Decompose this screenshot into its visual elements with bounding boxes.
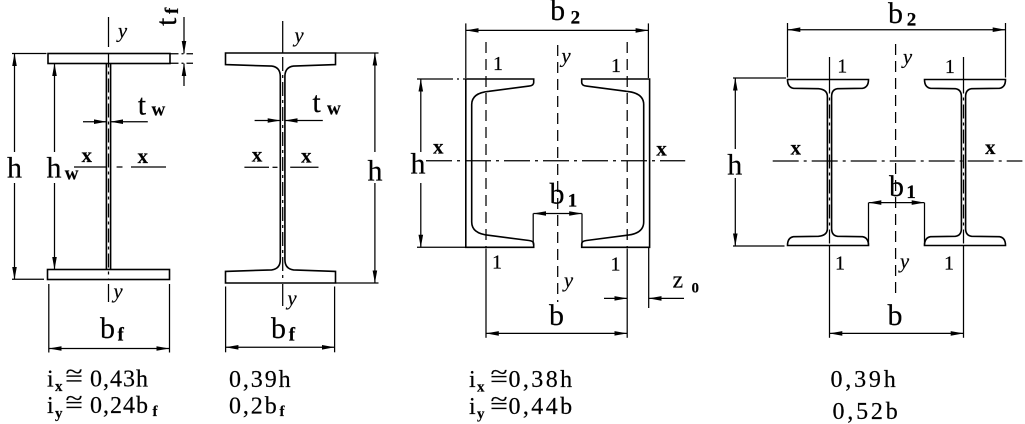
left I-beam outline (figure 4) [788,80,869,246]
svg-text:x: x [301,144,312,168]
bottom flange of beam 1 [48,270,170,280]
label t_w (beam 1) [138,88,166,121]
svg-text:~: ~ [491,387,508,413]
svg-text:~: ~ [66,386,83,412]
svg-text:x: x [985,135,996,159]
svg-text:t: t [138,88,147,121]
svg-text:b: b [100,312,115,345]
svg-text:1: 1 [611,55,621,77]
svg-text:x: x [433,135,444,159]
svg-text:t: t [312,86,321,119]
svg-text:y: y [112,281,124,303]
formula i_x = 0,38h (column 3) [469,360,575,396]
svg-text:0,38h: 0,38h [509,367,575,393]
svg-text:1: 1 [906,182,916,203]
svg-text:h: h [47,152,62,185]
svg-text:y: y [562,270,574,292]
svg-text:0,39h: 0,39h [229,367,293,393]
formula 0,2b_f (column 2) [229,394,286,421]
svg-text:1: 1 [945,56,955,78]
svg-text:y: y [293,25,305,47]
svg-text:b: b [550,178,565,211]
label b_1 (figure 4) [889,170,916,203]
svg-text:2: 2 [571,8,581,29]
svg-text:0,52b: 0,52b [833,399,901,424]
svg-text:0: 0 [692,281,700,297]
dimension b (figure 3) [486,332,627,334]
svg-text:x: x [82,143,93,167]
svg-text:b: b [888,299,903,332]
label t_w (beam 2) [312,86,341,120]
axis 1-1 right (figure 3) [626,42,628,338]
svg-text:1: 1 [568,191,578,212]
svg-text:1: 1 [493,53,503,75]
dimension t_w (beam 1) [83,121,148,123]
svg-text:t: t [150,17,183,26]
svg-text:0,39h: 0,39h [831,367,899,393]
svg-text:~: ~ [66,360,83,386]
top flange of beam 1 [48,54,170,64]
formula i_y = 0,24b_f (column 1) [47,386,159,422]
svg-text:i: i [47,393,54,419]
svg-text:1: 1 [837,55,847,77]
axis x of beam 1 [74,166,166,168]
axis y of figure 3 [557,45,559,302]
dimension t_w (beam 2) [255,120,323,122]
svg-text:z: z [673,268,684,294]
axis x of figure 4 [773,160,1023,162]
dimension b (figure 4) [830,332,964,334]
svg-text:i: i [47,367,54,393]
label b_f (beam 1) [100,312,125,346]
svg-text:y: y [116,21,128,43]
svg-text:f: f [118,325,125,346]
axis y (vertical centerline) of beam 2 [282,21,284,306]
svg-text:h: h [368,155,383,188]
dimension b_f (beam 2) [226,287,335,353]
axis 1-1 right (figure 4) [963,57,965,338]
svg-text:b: b [889,170,904,203]
svg-text:h: h [7,152,22,185]
svg-text:x: x [138,144,149,168]
outline of rolled I-beam 2 [226,53,336,283]
svg-text:x: x [790,136,801,160]
axis 1-1 left (figure 3) [485,42,487,338]
label z_0 (figure 3) [673,268,700,297]
axis 1-1 left (figure 4) [829,57,831,338]
axis y (vertical centerline) of beam 1 [108,17,110,302]
right channel outline (figure 3) [582,79,650,247]
svg-text:w: w [65,164,79,185]
dimension h (beam 2) [336,53,379,283]
svg-text:~: ~ [491,360,508,386]
svg-text:h: h [727,149,742,182]
svg-text:f: f [289,325,296,346]
axis y of figure 4 [895,44,897,297]
svg-text:1: 1 [944,253,954,275]
svg-text:b: b [549,299,564,332]
svg-text:1: 1 [611,254,621,276]
label t_f rotated (beam 1) [150,7,183,26]
web of beam 1 [106,64,110,270]
svg-text:y: y [477,407,485,423]
svg-text:i: i [469,367,476,393]
svg-text:x: x [477,380,485,396]
dimension z_0 (figure 3) [604,247,684,308]
svg-text:0,44b: 0,44b [509,394,575,420]
formula i_y = 0,44b (column 3) [469,387,575,423]
left channel outline (figure 3) [466,79,534,247]
label h_w (beam 1) [47,152,79,185]
svg-text:0,43h: 0,43h [90,367,149,393]
formula i_x = 0,43h (column 1) [47,360,149,396]
dimension b_1 (figure 3) [533,214,582,247]
svg-text:b: b [271,312,286,345]
svg-text:b: b [888,0,903,30]
dimension b_f (beam 1) [49,284,170,353]
right I-beam outline (figure 4) [925,80,1006,246]
dimension b_2 (figure 4) [788,23,1006,78]
svg-text:1: 1 [492,252,502,274]
dimension h (beam 1) [12,54,47,280]
svg-text:f: f [162,7,183,14]
svg-text:2: 2 [907,10,917,31]
dimension h (figure 4) [733,78,786,246]
svg-text:x: x [55,379,63,395]
svg-text:b: b [550,0,565,27]
svg-text:y: y [560,46,572,68]
svg-text:y: y [898,251,910,273]
label b_1 (figure 3) [550,178,578,212]
svg-text:0,2b: 0,2b [229,394,279,420]
axis x of figure 3 [426,160,685,162]
svg-text:i: i [469,394,476,420]
dimension h_w (beam 1) [54,64,56,270]
svg-text:y: y [55,406,63,422]
svg-text:x: x [656,137,667,161]
label b_f (beam 2) [271,312,296,346]
dimension t_f (beam 1) [171,17,194,86]
svg-text:y: y [901,47,913,69]
svg-text:h: h [411,148,426,181]
dimension b_1 (figure 4) [869,203,925,246]
svg-text:w: w [152,100,166,121]
axis x of beam 2 [244,166,318,168]
svg-text:0,24b: 0,24b [90,393,149,419]
label b_2 (figure 4) [888,0,916,31]
svg-text:1: 1 [835,253,845,275]
svg-text:w: w [327,99,341,120]
label b_2 (figure 3) [550,0,580,29]
dimension h (figure 3) [417,79,466,247]
svg-text:y: y [286,288,298,310]
dimension b_2 (figure 3) [466,23,649,78]
svg-text:x: x [252,143,263,167]
